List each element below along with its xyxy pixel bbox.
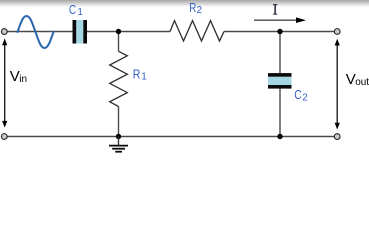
svg-text:2: 2 [197,5,203,16]
ground [109,137,128,152]
label I [273,4,277,15]
wire bottom [7,136,334,138]
svg-text:V: V [10,68,20,85]
svg-text:1: 1 [77,7,83,18]
wire top: R2 to right terminal [224,31,334,33]
junction node: C2 top [277,29,282,34]
wire C2 branch top [279,32,281,74]
Vout measurement arrow [335,39,340,130]
wire R1 branch top [118,32,120,52]
svg-text:2: 2 [302,93,308,104]
svg-text:out: out [355,77,369,88]
terminal top-left [1,29,7,35]
resistor R2 [170,21,224,41]
terminal top-right [334,29,340,35]
capacitor C2 [268,73,292,89]
junction node: C2 bottom [277,134,282,139]
terminal bottom-right [334,134,340,140]
svg-text:in: in [19,74,27,85]
resistor R1 [110,51,128,106]
wire top: left terminal to C1 [7,31,72,33]
svg-text:R: R [189,0,196,15]
svg-text:R: R [133,67,141,82]
Vin measurement arrow [2,39,7,128]
terminal bottom-left [1,134,7,140]
svg-text:1: 1 [141,71,147,82]
wire C2 branch bottom [279,89,281,137]
junction node: R1 top [116,29,121,34]
wire R1 branch bottom [118,107,120,137]
svg-text:C: C [294,87,302,102]
capacitor C1 [73,20,88,44]
junction node: ground [116,134,121,139]
current arrow I [254,17,306,23]
svg-text:C: C [69,2,76,17]
AC source sine wave [18,16,54,48]
wire top: C1 to R2 [87,31,170,33]
